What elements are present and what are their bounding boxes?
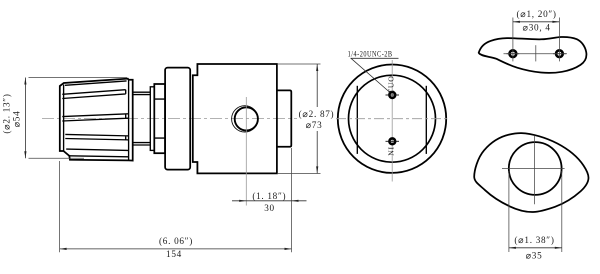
outlet boss: [277, 90, 291, 146]
flange: [165, 68, 190, 170]
knob left inner edge: [63, 85, 65, 152]
stem lines: [133, 92, 151, 145]
dim 35 ext left: [508, 171, 510, 252]
dim d73 ext bottom: [278, 172, 321, 174]
dim 30.4 ext right: [558, 18, 560, 62]
svg-text:⌀73: ⌀73: [306, 120, 323, 130]
cover crosshair horizontal: [502, 168, 565, 170]
dim d54 ext top: [29, 77, 128, 79]
gasket hole left: [507, 50, 520, 57]
cover crosshair vertical: [534, 136, 536, 205]
svg-text:⌀35: ⌀35: [526, 251, 543, 261]
body corner step lines: [196, 64, 198, 173]
text mask: [297, 108, 335, 129]
svg-text:(⌀2. 13″): (⌀2. 13″): [2, 93, 12, 133]
front view vertical centerline: [391, 60, 393, 182]
dim 154 ext left: [59, 161, 61, 252]
port vertical centerline: [245, 97, 247, 206]
gasket hole right: [553, 50, 566, 57]
gasket outline: [479, 37, 587, 73]
svg-text:⌀54: ⌀54: [12, 111, 22, 128]
cover outline: [474, 133, 588, 212]
svg-text:(6. 06″): (6. 06″): [159, 236, 193, 246]
gasket center tick: [535, 45, 537, 61]
thread callout underline: [351, 57, 399, 59]
right chord flat: [425, 86, 427, 154]
svg-text:⌀30, 4: ⌀30, 4: [523, 23, 551, 33]
front view horizontal centerline: [336, 118, 449, 120]
bonnet: [150, 87, 154, 151]
svg-text:(⌀1. 38″): (⌀1. 38″): [514, 235, 554, 245]
dim 30.4 line: [513, 21, 560, 23]
bonnet main: [154, 84, 165, 153]
dim d73 line: [316, 64, 318, 107]
dim 30 line: [232, 200, 307, 202]
front view outer circle: [338, 65, 446, 173]
IN port: [386, 138, 400, 144]
svg-text:(1. 18″): (1. 18″): [252, 191, 286, 201]
left chord flat: [356, 86, 358, 154]
svg-text:NI: NI: [386, 146, 395, 156]
knob top face inner line: [65, 81, 127, 85]
thread callout leader: [351, 58, 390, 92]
dim d54 ext bottom: [29, 157, 85, 159]
port thread circle: [232, 106, 258, 132]
port circle: [235, 107, 258, 130]
centerline main axis: [42, 118, 336, 120]
dim 35 line: [509, 247, 562, 249]
dim d73 ext top: [278, 63, 321, 65]
dim d54 vertical line: [24, 78, 26, 159]
svg-text:(⌀1, 20″): (⌀1, 20″): [517, 9, 557, 19]
knob groove band 3: [65, 134, 128, 140]
cover circle: [509, 142, 562, 195]
dim 154 line: [60, 248, 292, 250]
knob groove band 2: [62, 114, 128, 121]
knob bottom face band: [66, 149, 128, 157]
svg-text:30: 30: [264, 203, 275, 213]
knob cap inner edge: [128, 80, 130, 161]
svg-text:1/4-20UNC-2B: 1/4-20UNC-2B: [348, 49, 393, 59]
bonnet internal lines: [154, 99, 165, 138]
dim d54 arrows: [24, 78, 26, 85]
svg-text:(⌀2. 87): (⌀2. 87): [299, 109, 335, 119]
body: [193, 64, 277, 173]
knob outline: [60, 79, 133, 161]
front view inner circle: [349, 75, 436, 162]
OUT port: [386, 92, 400, 98]
knob groove band 1: [62, 90, 125, 99]
dim 35 ext right: [561, 171, 563, 252]
dim 154 ext right: [291, 148, 293, 252]
gasket holes connecting line: [504, 53, 568, 55]
dim 30.4 ext left: [512, 18, 514, 62]
svg-text:154: 154: [166, 249, 182, 259]
